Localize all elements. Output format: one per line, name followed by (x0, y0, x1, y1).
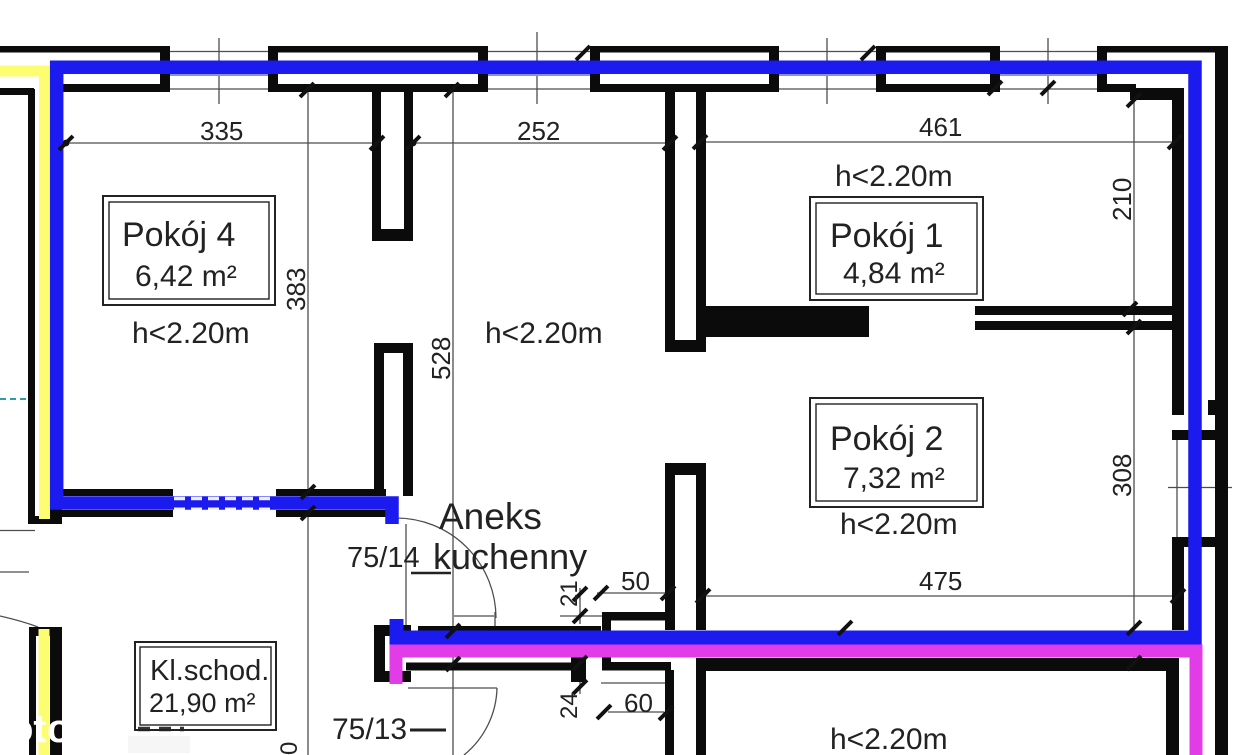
svg-text:6,42 m²: 6,42 m² (135, 260, 237, 293)
svg-text:Kl.schod.: Kl.schod. (150, 655, 269, 687)
svg-text:h<2.20m: h<2.20m (830, 723, 948, 755)
svg-text:21: 21 (556, 580, 583, 607)
svg-text:0: 0 (276, 742, 303, 755)
svg-text:21,90 m²: 21,90 m² (149, 688, 256, 718)
svg-text:Pokój 4: Pokój 4 (122, 216, 235, 254)
svg-text:h<2.20m: h<2.20m (840, 508, 958, 541)
svg-text:252: 252 (517, 116, 560, 146)
svg-text:kuchenny: kuchenny (433, 536, 587, 577)
svg-text:383: 383 (281, 268, 311, 311)
svg-text:475: 475 (919, 566, 962, 596)
svg-text:528: 528 (426, 337, 456, 380)
svg-text:75/13: 75/13 (332, 713, 407, 746)
svg-text:75/14: 75/14 (347, 542, 420, 574)
svg-text:Pokój 1: Pokój 1 (830, 217, 943, 255)
svg-text:308: 308 (1107, 454, 1137, 497)
svg-text:4,84 m²: 4,84 m² (843, 257, 945, 290)
svg-text:h<2.20m: h<2.20m (132, 317, 250, 350)
svg-text:h<2.20m: h<2.20m (485, 317, 603, 350)
svg-text:335: 335 (200, 116, 243, 146)
svg-text:461: 461 (919, 112, 962, 142)
svg-text:210: 210 (1107, 178, 1137, 221)
svg-text:Pokój 2: Pokój 2 (830, 420, 943, 458)
svg-text:otod: otod (9, 707, 96, 751)
svg-text:Aneks: Aneks (439, 496, 542, 537)
svg-text:60: 60 (624, 688, 653, 718)
svg-text:h<2.20m: h<2.20m (835, 160, 953, 193)
svg-text:50: 50 (621, 566, 650, 596)
svg-text:7,32 m²: 7,32 m² (843, 462, 945, 495)
svg-text:24: 24 (556, 692, 583, 719)
